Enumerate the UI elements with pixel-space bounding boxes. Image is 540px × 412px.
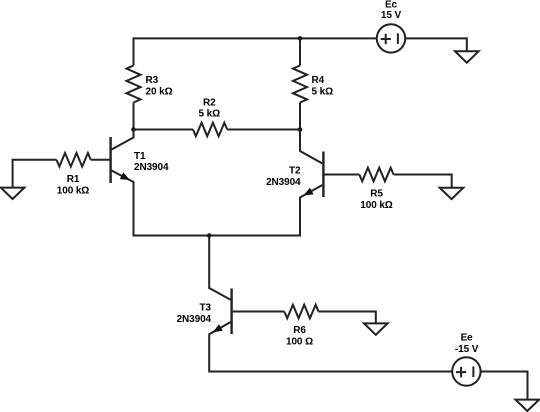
svg-text:100 Ω: 100 Ω bbox=[286, 337, 313, 348]
svg-text:2N3904: 2N3904 bbox=[177, 314, 212, 325]
svg-text:T3: T3 bbox=[200, 303, 212, 314]
junction dot T1 collector node bbox=[131, 127, 136, 132]
transistor T2 2N3904 (mirrored) bbox=[300, 130, 323, 236]
voltage source Ee -15 V bbox=[452, 357, 480, 385]
resistor R3 bbox=[127, 66, 141, 130]
svg-text:15 V: 15 V bbox=[381, 10, 402, 21]
svg-text:Ee: Ee bbox=[461, 333, 474, 344]
svg-text:100 kΩ: 100 kΩ bbox=[360, 200, 393, 211]
wire T2 base to R5 bbox=[325, 174, 360, 176]
svg-text:R1: R1 bbox=[67, 174, 80, 185]
wire T3 base to R6 bbox=[233, 311, 285, 313]
svg-text:T2: T2 bbox=[289, 165, 301, 176]
svg-text:100 kΩ: 100 kΩ bbox=[57, 186, 90, 197]
resistor R1 bbox=[57, 153, 91, 167]
ground at R6 bbox=[319, 312, 388, 335]
resistor R2 bbox=[134, 123, 301, 137]
wire emitter rail T1-T2 bbox=[133, 235, 301, 237]
svg-text:R4: R4 bbox=[312, 75, 325, 86]
junction dot emitter rail / T3 collector bbox=[207, 233, 212, 238]
svg-text:R5: R5 bbox=[370, 189, 383, 200]
resistor R4 bbox=[293, 38, 307, 129]
svg-text:Ec: Ec bbox=[385, 0, 398, 10]
svg-text:2N3904: 2N3904 bbox=[134, 162, 169, 173]
junction dot T2 collector node bbox=[298, 127, 303, 132]
transistor T3 2N3904 (mirrored) bbox=[209, 236, 231, 372]
wire R1 to T1 base bbox=[91, 159, 110, 161]
wire bottom rail T3 emitter to Ee bbox=[208, 371, 452, 373]
transistor T1 2N3904 bbox=[111, 130, 134, 236]
svg-text:R3: R3 bbox=[146, 75, 159, 86]
resistor R5 bbox=[359, 168, 393, 182]
resistor R6 bbox=[284, 305, 318, 319]
ground at Ec bbox=[405, 38, 478, 62]
svg-text:R6: R6 bbox=[293, 325, 306, 336]
ground at left input bbox=[1, 160, 57, 199]
ground at R5 bbox=[394, 175, 464, 200]
wire top supply rail bbox=[134, 38, 377, 65]
svg-text:5 kΩ: 5 kΩ bbox=[312, 86, 334, 97]
svg-text:2N3904: 2N3904 bbox=[266, 177, 301, 188]
svg-text:T1: T1 bbox=[134, 151, 146, 162]
svg-text:5 kΩ: 5 kΩ bbox=[199, 109, 221, 120]
ground at Ee bbox=[481, 372, 539, 412]
junction dot top rail / R4 branch bbox=[298, 36, 303, 41]
svg-text:20 kΩ: 20 kΩ bbox=[146, 86, 173, 97]
svg-text:-15 V: -15 V bbox=[455, 344, 479, 355]
voltage source Ec 15 V bbox=[377, 24, 405, 52]
svg-text:R2: R2 bbox=[203, 97, 216, 108]
